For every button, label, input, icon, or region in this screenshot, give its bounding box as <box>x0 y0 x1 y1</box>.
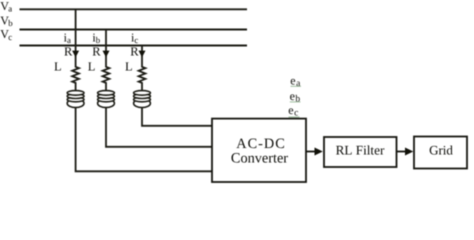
svg-text:R: R <box>64 44 73 58</box>
svg-text:ec: ec <box>288 103 298 119</box>
svg-text:R: R <box>92 44 101 58</box>
svg-text:Vb: Vb <box>0 13 13 28</box>
svg-text:L: L <box>88 60 96 74</box>
svg-text:L: L <box>54 60 62 74</box>
svg-text:Va: Va <box>0 0 12 14</box>
svg-text:ic: ic <box>131 30 138 45</box>
svg-text:Converter: Converter <box>231 150 288 166</box>
svg-text:RL Filter: RL Filter <box>336 142 385 157</box>
svg-text:Grid: Grid <box>429 142 453 157</box>
svg-text:ib: ib <box>92 30 100 45</box>
svg-text:ia: ia <box>64 30 71 45</box>
svg-text:R: R <box>130 44 139 58</box>
svg-text:Vc: Vc <box>0 27 12 42</box>
svg-text:L: L <box>125 60 133 74</box>
svg-text:ea: ea <box>290 74 301 90</box>
